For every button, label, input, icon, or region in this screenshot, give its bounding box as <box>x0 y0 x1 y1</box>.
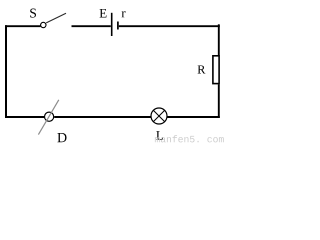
battery E long plate <box>111 13 113 36</box>
watermark manfen5.com <box>155 135 224 142</box>
label r <box>122 11 126 17</box>
label D <box>57 133 66 142</box>
wire bottom middle segment <box>54 116 151 118</box>
lamp L circle <box>151 108 167 124</box>
wire bottom right segment <box>167 116 220 118</box>
label R <box>198 65 206 73</box>
lamp L cross stroke 1 <box>153 110 164 121</box>
wire bottom left segment <box>5 116 44 118</box>
wire top segment battery to right corner <box>119 25 220 27</box>
battery r short plate <box>117 22 119 30</box>
component D diagonal slash <box>38 100 58 135</box>
wire top segment to switch <box>5 25 41 27</box>
resistor R box <box>213 56 219 84</box>
label L <box>156 131 163 140</box>
label S <box>30 9 36 18</box>
lamp L cross stroke 2 <box>153 110 164 121</box>
switch S blade <box>46 13 66 23</box>
wire left vertical <box>5 25 7 118</box>
wire top segment switch to battery <box>72 25 111 27</box>
switch S pivot circle <box>41 22 46 27</box>
component D circle <box>45 112 54 121</box>
wire right vertical upper <box>218 24 220 55</box>
label E <box>100 9 107 18</box>
wire right vertical lower <box>218 84 220 118</box>
